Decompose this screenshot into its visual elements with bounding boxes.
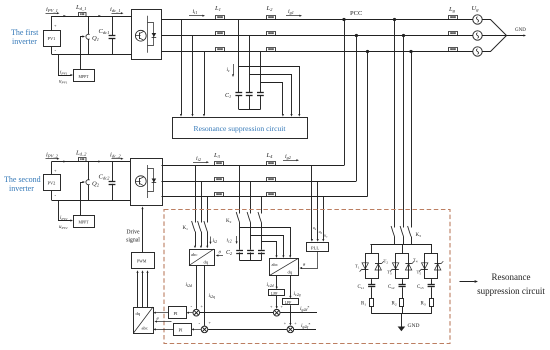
capacitor Cdc1 <box>112 16 114 36</box>
wire: bend A to suppression box right <box>239 67 300 115</box>
svg-text:Drive: Drive <box>126 230 140 236</box>
wire: i_c2q to LPF2 <box>290 275 292 297</box>
wire: inverter1 DC- rail <box>52 54 132 56</box>
thyristor branch 2 left (down) <box>392 263 398 269</box>
capacitor Cs2 <box>399 284 406 286</box>
inverter U1 freewheel diode <box>148 23 154 46</box>
wire: K3 drop phase C <box>411 52 413 228</box>
svg-text:ic: ic <box>227 67 231 73</box>
svg-text:GND: GND <box>515 28 526 33</box>
junction dot PCC phase A <box>342 18 345 21</box>
svg-text:LPF: LPF <box>271 292 278 296</box>
svg-text:PI: PI <box>179 327 184 332</box>
wire: MPPT2 sense from DC- rail <box>59 201 72 221</box>
resistor R2 <box>400 299 404 307</box>
wire: tap phase C to suppression box <box>204 52 206 115</box>
reference label ig2q* <box>294 329 316 331</box>
svg-text:PV1: PV1 <box>48 36 56 41</box>
svg-text:PLL: PLL <box>311 245 319 250</box>
wire: q-axis reference line <box>208 329 287 331</box>
svg-text:suppression circuit: suppression circuit <box>477 286 545 296</box>
inductor L3 phase A <box>215 162 224 166</box>
gate wire MPPT1 to Q1 <box>81 37 84 71</box>
svg-text:MPPT: MPPT <box>79 221 90 225</box>
wire: branch 1 bottom lead <box>371 307 373 314</box>
wire: ground stem <box>401 314 403 327</box>
wire: bend C to suppression box right <box>261 83 283 115</box>
wire: inverter2 riser phase B <box>356 36 358 182</box>
switch K1 blades <box>192 221 195 232</box>
svg-text:LPF: LPF <box>285 301 292 305</box>
inductor L1 phase B <box>216 32 225 36</box>
wire: tap phase B to suppression box <box>192 36 194 115</box>
svg-text:inverter: inverter <box>12 37 37 46</box>
transistor Q1 switch leg <box>88 16 90 34</box>
junction dot K3 tap phase A <box>393 18 396 21</box>
svg-text:abc: abc <box>142 326 148 331</box>
svg-text:Q1: Q1 <box>92 35 99 42</box>
svg-text:T2: T2 <box>384 259 389 265</box>
wire: inverter2 phase A line <box>162 165 345 167</box>
wire: branch 3 resistor lead <box>431 287 433 298</box>
svg-text:K3: K3 <box>416 233 422 238</box>
svg-text:uPV2: uPV2 <box>59 225 68 230</box>
svg-text:R3: R3 <box>421 302 426 307</box>
thyristor branch 1 left (down) <box>362 263 368 269</box>
svg-text:L4: L4 <box>266 152 274 159</box>
svg-text:dq: dq <box>204 260 209 265</box>
switch K2 blades <box>236 212 239 223</box>
svg-text:ii1: ii1 <box>193 9 198 15</box>
inductor L2 phase B <box>267 32 276 36</box>
svg-text:iPV1: iPV1 <box>60 71 68 76</box>
thyristor branch 1 right (up) <box>375 264 381 270</box>
svg-text:ii2d: ii2d <box>186 282 193 288</box>
wire: grid neutral convergence <box>483 20 507 36</box>
wire: inverter1 phase C line <box>162 51 474 53</box>
source Ug phase A <box>473 15 482 24</box>
callout arrow to resonance suppression label <box>460 281 475 283</box>
wire: branch 3 cap lead <box>431 279 433 285</box>
svg-text:ii2: ii2 <box>213 238 218 244</box>
inverter U2 internal rail <box>147 165 149 198</box>
svg-text:Cdc2: Cdc2 <box>99 174 111 181</box>
wire: PWM drive to inverter U2 <box>142 208 144 253</box>
svg-text:iPV_1: iPV_1 <box>46 6 58 13</box>
wire: inverter2 DC- rail <box>52 200 131 202</box>
wire: i_i2d output <box>196 266 198 309</box>
reference label ig2d* <box>280 312 317 314</box>
current arrowhead after Ld_1 <box>98 15 101 17</box>
dashed control-region box <box>164 210 450 344</box>
thyristor pair branch 2 frame <box>396 254 409 279</box>
svg-text:R2: R2 <box>392 302 397 307</box>
svg-text:Resonance suppression circuit: Resonance suppression circuit <box>194 124 287 133</box>
gate wire MPPT2 to Q2 <box>81 183 84 216</box>
wire: dq-abc to PWM phase c <box>147 272 149 308</box>
theta input to dq-abc <box>156 321 172 323</box>
wire: inverter2 DC+ rail <box>52 161 131 163</box>
svg-text:R1: R1 <box>361 302 366 307</box>
wire: PI1 to dq-abc <box>155 312 169 314</box>
resistor R3 <box>430 299 434 307</box>
svg-text:Ug: Ug <box>472 5 480 12</box>
wire: PI2 to dq-abc <box>155 329 174 331</box>
wire: K2 drop phase B <box>250 181 252 214</box>
thyristor branch 2 right (up) <box>405 264 411 270</box>
wire: inverter1 phase B line <box>162 35 474 37</box>
PLL block <box>307 243 329 252</box>
svg-text:Q2: Q2 <box>92 181 100 188</box>
svg-text:θ: θ <box>157 316 159 321</box>
svg-text:Cs3: Cs3 <box>417 285 424 290</box>
source Ug phase B <box>473 31 482 40</box>
inductor Ld_2 <box>79 158 87 162</box>
wire: K3 drop phase A <box>394 20 396 228</box>
svg-text:Resonance: Resonance <box>492 272 531 282</box>
svg-text:Ld_1: Ld_1 <box>75 4 86 11</box>
source Ug phase C <box>473 47 482 56</box>
switch K3 blades <box>394 237 396 245</box>
wire: K1 drop phase B <box>201 181 203 223</box>
wire: PLL tap phase B <box>317 181 319 240</box>
wire: C2 bend A to dq block <box>240 228 291 257</box>
wire: branch 3 bottom lead <box>431 307 433 314</box>
capacitor C1 phase A <box>235 92 242 94</box>
thyristor branch 3 right (up) <box>435 264 441 270</box>
thyristor pair branch 1 frame <box>366 254 379 279</box>
svg-text:iPV2: iPV2 <box>60 216 68 221</box>
junction dot PCC phase C <box>366 50 369 53</box>
capacitor C2 phase A <box>236 250 243 252</box>
junction dot K3 tap phase C <box>409 50 412 53</box>
wire: branch 2 cap lead <box>402 279 404 285</box>
ground symbol GND <box>398 327 406 332</box>
wire: C1 tap phase C <box>260 52 262 93</box>
inductor L4 phase C <box>267 193 276 197</box>
wire: branch 3 top lead <box>431 245 433 254</box>
PWM block <box>132 253 155 269</box>
wire: inverter2 phase C line <box>162 196 368 198</box>
svg-text:abc: abc <box>191 252 197 257</box>
resonance suppression summary box <box>173 118 308 139</box>
svg-text:idc_2: idc_2 <box>110 152 121 159</box>
svg-text:PCC: PCC <box>350 10 362 17</box>
wire: C1 star point <box>238 95 240 110</box>
capacitor C2 phase C <box>258 250 265 252</box>
wire: MPPT1 sense from DC- rail <box>59 55 72 76</box>
wire: C2 star point <box>239 252 241 260</box>
svg-text:Cs2: Cs2 <box>388 285 395 290</box>
summer S2 <box>201 326 208 333</box>
current arrowhead on DC+ rail <box>63 15 66 17</box>
svg-text:MPPT: MPPT <box>79 75 90 79</box>
inductor L1 phase A <box>216 16 225 20</box>
svg-text:dq: dq <box>136 311 141 316</box>
svg-text:Ld_2: Ld_2 <box>75 150 87 157</box>
theta input to abc-dq 1 <box>217 255 223 257</box>
svg-text:PI: PI <box>174 311 179 316</box>
svg-text:L2: L2 <box>266 5 274 12</box>
wire: summer S2 to PI2 <box>193 329 201 331</box>
inductor Ld_1 <box>79 13 87 17</box>
svg-text:ig1: ig1 <box>288 9 294 15</box>
svg-text:The second: The second <box>4 175 41 184</box>
svg-text:Cs1: Cs1 <box>358 285 365 290</box>
wire: thyristor top bus <box>370 244 432 246</box>
svg-text:uPV1: uPV1 <box>59 80 68 85</box>
transistor Q2 switch leg <box>88 162 90 180</box>
wire: PLL tap phase C <box>323 197 325 241</box>
wire: summer S1 to PI1 <box>188 312 193 314</box>
inverter bridge U1 box <box>132 10 162 60</box>
svg-text:dq: dq <box>288 270 293 275</box>
inductor L4 phase B <box>267 178 276 182</box>
svg-text:GND: GND <box>408 323 420 329</box>
svg-text:Cdc1: Cdc1 <box>99 28 110 35</box>
svg-text:T3: T3 <box>387 270 392 276</box>
wire: branch 1 top lead <box>371 245 373 254</box>
wire: inverter2 riser phase C <box>367 52 369 197</box>
wire: K1 drop phase C <box>207 197 209 223</box>
capacitor C2 phase B <box>247 250 254 252</box>
current label i_i2 drop with arrow <box>210 237 212 243</box>
inverter U1 IGBT symbol <box>135 30 146 41</box>
svg-text:iPV_2: iPV_2 <box>46 152 59 159</box>
wire: branch 2 resistor lead <box>402 287 404 298</box>
inductor L2 phase A <box>267 16 276 20</box>
svg-text:T1: T1 <box>355 264 360 270</box>
wire: grid GND lead <box>506 35 524 37</box>
wire: thyristor bottom bus <box>372 313 432 315</box>
svg-text:ig2: ig2 <box>285 154 291 160</box>
wire: LPF2 to summer S4 <box>290 305 292 324</box>
svg-text:ic2d: ic2d <box>267 282 274 288</box>
inductor L1 phase C <box>216 48 225 52</box>
svg-text:C1: C1 <box>225 93 231 99</box>
svg-text:ic2: ic2 <box>227 238 232 244</box>
svg-text:T4: T4 <box>413 258 418 264</box>
capacitor Cs1 <box>368 284 375 286</box>
inductor L2 phase C <box>267 48 276 52</box>
capacitor Cs3 <box>428 284 435 286</box>
PV panel PV1 <box>44 31 61 47</box>
capacitor C1 phase B <box>246 92 253 94</box>
svg-text:K2: K2 <box>226 219 232 224</box>
wire: K1 drop phase A <box>195 166 197 223</box>
svg-text:PV2: PV2 <box>48 181 56 186</box>
summer S4 <box>287 326 294 333</box>
wire: dq-abc to PWM phase b <box>142 272 144 308</box>
svg-text:ic2q: ic2q <box>294 291 301 297</box>
svg-text:idc_1: idc_1 <box>110 6 121 13</box>
svg-text:signal: signal <box>126 238 140 244</box>
wire: d-axis reference line <box>200 312 273 314</box>
svg-text:C2: C2 <box>226 250 232 256</box>
svg-text:ii2: ii2 <box>196 156 201 162</box>
capacitor C1 phase C <box>257 92 264 94</box>
svg-text:T5: T5 <box>417 270 422 276</box>
resistor R1 <box>370 299 374 307</box>
svg-text:The first: The first <box>11 28 39 37</box>
current arrowhead after Ld_2 <box>98 160 101 162</box>
svg-text:Lg: Lg <box>448 6 456 13</box>
thyristor branch 3 left (down) <box>422 263 428 269</box>
wire: PV2 left leg <box>51 162 53 201</box>
thyristor pair branch 3 frame <box>425 254 438 279</box>
wire: C2 bend C to dq block <box>262 242 277 257</box>
PI controller 1 <box>169 307 187 319</box>
wire: PLL tap phase A <box>311 166 313 241</box>
wire: inverter2 riser phase A <box>344 20 346 166</box>
wire: K3 drop phase B <box>403 36 405 228</box>
svg-text:inverter: inverter <box>9 184 34 193</box>
inductor L3 phase C <box>215 193 224 197</box>
wire: dq-abc to PWM phase a <box>137 272 139 308</box>
wire: branch 1 cap lead <box>371 279 373 285</box>
wire: inverter1 phase A line <box>162 19 474 21</box>
wire: i_i2q output <box>204 266 206 326</box>
wire: branch 2 bottom lead <box>402 307 404 314</box>
wire: C1 tap phase A <box>238 20 240 93</box>
current arrowhead on DC+ rail 2 <box>63 160 66 162</box>
MPPT controller block 2 <box>74 216 95 228</box>
wire: PV1 left leg <box>51 16 53 54</box>
wire: inverter1 DC+ rail <box>52 16 132 18</box>
svg-text:K1: K1 <box>183 226 189 231</box>
svg-text:L3: L3 <box>213 152 221 159</box>
wire: LPF1 to summer S3 <box>276 296 278 308</box>
svg-text:PWM: PWM <box>137 260 147 264</box>
inductor Lg phase A <box>449 16 458 20</box>
wire: C1 tap phase B <box>249 36 251 93</box>
wire: C2 bend B to dq block <box>251 236 284 257</box>
transform block abc-dq 1 <box>190 250 215 266</box>
junction dot PCC phase B <box>355 34 358 37</box>
inductor Lg phase B <box>449 32 458 36</box>
inverter U2 IGBT symbol <box>135 176 146 187</box>
wire: branch 1 resistor lead <box>371 287 373 298</box>
svg-text:L1: L1 <box>214 5 221 12</box>
wire: PLL theta to abc-dq 2 <box>301 252 318 269</box>
inverter U1 internal rail <box>147 16 149 53</box>
MPPT controller block 1 <box>74 70 95 82</box>
inductor L4 phase A <box>267 162 276 166</box>
LPF block 2 <box>283 299 299 305</box>
LPF block 1 <box>269 290 285 296</box>
wire: K2 drop phase A <box>239 166 241 214</box>
wire: K2 drop phase C <box>261 197 263 214</box>
summer S1 <box>193 309 200 316</box>
wire: bend B to suppression box right <box>250 75 292 115</box>
wire: tap phase A to suppression box <box>181 20 183 115</box>
transform block dq-abc <box>134 308 154 334</box>
inverter bridge U2 box <box>131 159 163 206</box>
wire: branch 2 top lead <box>402 245 404 254</box>
summer S3 <box>273 309 280 316</box>
inverter U2 freewheel diode <box>148 169 154 192</box>
junction dot K3 tap phase B <box>402 34 405 37</box>
PI controller 2 <box>174 324 192 336</box>
inductor Lg phase C <box>449 48 458 52</box>
transform block abc-dq 2 <box>270 259 299 276</box>
svg-text:ii2q: ii2q <box>209 293 216 299</box>
capacitor Cdc2 <box>112 162 114 182</box>
svg-text:abc: abc <box>272 262 278 267</box>
PV panel PV2 <box>44 175 61 191</box>
inductor L3 phase B <box>215 178 224 182</box>
wire: inverter2 phase B line <box>162 181 357 183</box>
wire: i_c2d to LPF1 <box>276 275 278 288</box>
